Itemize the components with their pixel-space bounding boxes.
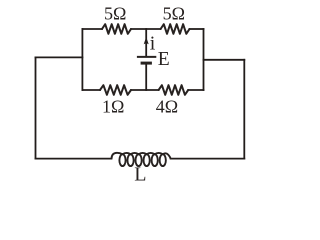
wire: middle branch lower segment (battery to bottom branch): [145, 64, 147, 90]
wire: right connecting wire from inner network to outer loop: [204, 59, 245, 61]
inductor L: loop 1: [119, 154, 125, 166]
svg-text:E: E: [158, 49, 170, 70]
svg-text:4Ω: 4Ω: [156, 96, 178, 116]
current arrow head (pointing up on middle branch): [144, 37, 149, 44]
svg-text:5Ω: 5Ω: [104, 3, 126, 23]
inductor L: exit arc: [163, 153, 171, 159]
wire: outer loop bottom right segment from inductor: [171, 158, 245, 160]
svg-text:1Ω: 1Ω: [102, 96, 124, 116]
resistor R3 1ohm (bottom-left): [100, 85, 131, 95]
wire: left connecting wire from outer loop to inner network: [36, 56, 83, 58]
wire: top branch middle segment between R1 and R2: [131, 28, 161, 30]
inductor L: loop 4: [144, 154, 150, 166]
inductor L: top arches: [123, 153, 163, 154]
wire: middle branch upper segment (node to battery): [145, 29, 147, 56]
wire: outer loop left vertical: [35, 57, 37, 158]
wire: bottom branch left lead: [82, 89, 100, 91]
inductor L: loop 6: [160, 154, 166, 166]
svg-text:L: L: [134, 163, 146, 185]
battery E: long positive plate: [137, 56, 156, 58]
svg-text:i: i: [150, 32, 156, 54]
wire: outer loop bottom left segment to inductor: [36, 158, 112, 160]
wire: inner network right vertical: [203, 29, 205, 90]
wire: top branch left lead: [82, 28, 102, 30]
wire: outer loop right vertical: [243, 60, 245, 159]
inductor L: loop 3: [136, 154, 142, 166]
resistor R1 5ohm (top-left): [102, 24, 131, 34]
wire: top branch right lead: [190, 28, 204, 30]
svg-text:5Ω: 5Ω: [163, 3, 185, 23]
inductor L: loop 5: [152, 154, 158, 166]
wire: inner network left vertical: [81, 29, 83, 90]
inductor L: loop 2: [127, 154, 133, 166]
wire: bottom branch right lead: [188, 89, 203, 91]
wire: bottom branch middle segment between R3 and R4: [131, 89, 159, 91]
battery E: short negative plate: [141, 62, 152, 65]
inductor L: entry hump: [112, 153, 123, 159]
resistor R2 5ohm (top-right): [161, 24, 190, 34]
resistor R4 4ohm (bottom-right): [159, 85, 189, 95]
